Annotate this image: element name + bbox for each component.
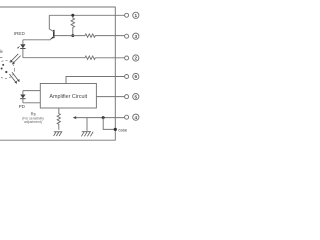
IRED emission arrows bbox=[17, 46, 19, 48]
resistor R3 net2 bbox=[85, 56, 125, 59]
wire PD anode to amp bbox=[23, 90, 40, 92]
photodiode PD bbox=[20, 91, 25, 103]
resistor R2 net3 bbox=[85, 34, 125, 37]
scattered ray to PD B bbox=[12, 72, 19, 81]
light ray to particle A bbox=[10, 54, 21, 65]
light ray to particle B bbox=[13, 56, 21, 64]
svg-text:PD: PD bbox=[19, 104, 26, 109]
terminal 3 bbox=[125, 33, 139, 39]
resistor Rs bbox=[57, 108, 60, 130]
svg-text:IRED: IRED bbox=[14, 31, 26, 36]
terminal 5 bbox=[125, 94, 139, 100]
wire emitter to IRED anode bbox=[23, 39, 50, 41]
svg-text:cle: cle bbox=[0, 49, 4, 54]
svg-text:case: case bbox=[118, 128, 128, 133]
junction dot node G bbox=[102, 116, 105, 119]
ground lead G2 bbox=[86, 118, 88, 131]
svg-text:2: 2 bbox=[134, 56, 137, 61]
clipped label mark bbox=[0, 56, 2, 59]
ground under Rs bbox=[54, 132, 63, 136]
particle dot 3 bbox=[5, 71, 7, 73]
terminal 1 bbox=[125, 12, 139, 18]
wire base net to R1 bottom bbox=[58, 35, 85, 37]
package outline bbox=[0, 7, 115, 140]
svg-text:4: 4 bbox=[134, 115, 137, 120]
scattered ray to PD A bbox=[9, 72, 19, 84]
junction dot node B2 bbox=[71, 34, 74, 37]
wire net6 Vcc bbox=[66, 77, 125, 84]
op-amp U1 amplifier circuit box bbox=[40, 84, 96, 109]
terminal 6 bbox=[125, 73, 139, 79]
wire IRED cathode net2 bbox=[23, 57, 85, 59]
wire net5 output bbox=[96, 96, 124, 98]
svg-text:6: 6 bbox=[134, 74, 137, 79]
particle dot 1 bbox=[2, 64, 4, 66]
junction dot node B1 bbox=[71, 14, 74, 17]
resistor R1 bbox=[71, 15, 74, 35]
wire net4 gnd line bbox=[75, 117, 125, 119]
terminal 2 bbox=[125, 55, 139, 61]
ground G2 bbox=[81, 132, 93, 137]
case junction dot bbox=[114, 128, 117, 131]
wire PD cathode to amp bbox=[23, 102, 40, 104]
svg-text:5: 5 bbox=[134, 94, 137, 99]
svg-text:Amplifier Circuit: Amplifier Circuit bbox=[49, 94, 87, 100]
terminal 4 bbox=[125, 114, 139, 120]
transistor Q1 bbox=[49, 15, 58, 40]
IRED D1 bbox=[20, 40, 25, 58]
arrow to Rs bbox=[73, 116, 76, 119]
wire case connection bbox=[103, 118, 115, 130]
particle dot 2 bbox=[1, 68, 3, 70]
svg-text:adjustment): adjustment) bbox=[24, 120, 42, 124]
wire net1 top rail bbox=[49, 14, 124, 16]
svg-text:1: 1 bbox=[134, 13, 137, 18]
svg-text:3: 3 bbox=[134, 34, 137, 39]
dust particle dashed circle bbox=[0, 61, 15, 79]
